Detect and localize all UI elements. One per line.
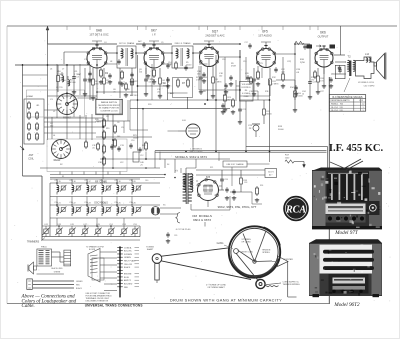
left mesh verticals (51, 117, 53, 139)
coil L24 (102, 207, 104, 213)
svg-text:C30: C30 (129, 180, 132, 182)
top small parts left of V5 (303, 45, 306, 47)
RCA logo inner ring (285, 198, 306, 219)
coil L22 (72, 207, 74, 213)
wire x155 bus down (154, 151, 156, 168)
tube V3 6Q7 grid cap lead (208, 45, 210, 48)
cabinet 97T right dial (367, 201, 380, 215)
junction dots mid (102, 126, 104, 128)
resistor column A2 (103, 132, 106, 138)
wire RF row bottom rail (50, 196, 160, 198)
svg-text:470M: 470M (231, 65, 236, 67)
table column divider 1 (353, 99, 355, 112)
coil block left edge (41, 176, 43, 240)
drum outer circle (229, 226, 280, 277)
power wires (159, 152, 161, 161)
tube V3 6Q7 envelope (200, 48, 219, 67)
svg-text:C30 8 MFD: C30 8 MFD (364, 86, 375, 88)
svg-text:1: 1 (362, 107, 363, 109)
svg-text:R24: R24 (260, 185, 263, 187)
tube V4 6F5 grid cap lead (265, 46, 267, 49)
svg-text:OHM: OHM (244, 96, 249, 98)
gnd cluster V5 (317, 90, 319, 92)
small box in rear box (133, 152, 139, 162)
svg-text:C17: C17 (244, 42, 247, 44)
coil L20 (132, 185, 134, 191)
ground under R13a (232, 110, 234, 112)
svg-text:UNIVERSAL TRANS CONNECTIONS: UNIVERSAL TRANS CONNECTIONS (85, 304, 143, 308)
svg-text:GREEN: GREEN (124, 257, 131, 259)
svg-text:BLK-RED: BLK-RED (124, 283, 133, 285)
speaker frame (356, 57, 375, 79)
wire power section rails (196, 169, 265, 171)
wire IF2 to V3 grid (193, 52, 200, 54)
wire coils right drop x140 (139, 226, 141, 237)
wire coil row verticals (56, 197, 58, 206)
wire osc vertical x97 (96, 68, 98, 99)
grid cap clamp V4 (261, 42, 271, 45)
universal trans transformer outline (88, 249, 100, 283)
cabinet 96T2 dial panel (329, 274, 369, 294)
svg-text:SCREEN: SCREEN (124, 254, 133, 256)
svg-text:RCA: RCA (285, 205, 306, 216)
coil L21 (57, 207, 59, 213)
capacitor in rear box 1 (110, 145, 113, 147)
svg-text:COIL: COIL (28, 158, 34, 161)
svg-text:TO SPEAKER OUTPUT: TO SPEAKER OUTPUT (86, 245, 104, 248)
arrow R17 down (303, 165, 306, 168)
svg-text:FIELD: FIELD (41, 247, 47, 249)
tube V5 6K6 envelope (315, 49, 333, 67)
wire detector bus lower (130, 108, 230, 110)
svg-text:AMP P2: AMP P2 (124, 279, 131, 282)
resistor R15 cathode (314, 72, 317, 77)
AC plug (151, 207, 159, 215)
capacitor C7 under IF1 (130, 73, 133, 75)
svg-text:96K2 & 96T3: 96K2 & 96T3 (193, 218, 211, 222)
wire B+ feed drop (327, 147, 329, 168)
ground C26 (226, 196, 228, 198)
rotary switch S2 REAR (52, 140, 71, 159)
svg-text:1ST DET & OSC: 1ST DET & OSC (89, 32, 108, 36)
antenna wire above 97T (344, 159, 363, 170)
tube V2 6K7 envelope (144, 48, 164, 68)
speaker cone (377, 54, 385, 79)
svg-text:RED: RED (124, 287, 129, 289)
svg-text:170: 170 (311, 79, 314, 81)
junction dots mesh (137, 85, 139, 87)
gnd cluster V3 (200, 90, 202, 92)
svg-text:.05: .05 (92, 147, 95, 149)
tube V4 6F5 pins (256, 52, 259, 55)
ground under V5 (323, 84, 325, 86)
svg-text:C6: C6 (117, 122, 119, 124)
resistor column A4 (103, 158, 106, 164)
wire bus B+ double line upper (155, 150, 327, 152)
svg-text:R20: R20 (148, 104, 151, 106)
power transformer T3 core (185, 173, 187, 204)
svg-text:RL-70-1 970: RL-70-1 970 (331, 107, 343, 109)
svg-text:C32: C32 (69, 202, 72, 204)
svg-text:2700: 2700 (300, 62, 306, 64)
drum rim arc dark (264, 228, 280, 246)
svg-text:SHOWN FROM FRONT: SHOWN FROM FRONT (98, 105, 120, 107)
svg-text:2 TRAP: 2 TRAP (74, 73, 82, 76)
cabinet 97T right column (369, 171, 382, 226)
padder trimmer C53 (122, 229, 126, 234)
wire bus down to power (215, 109, 217, 151)
padder trimmer C51 (109, 229, 113, 234)
resistor R13a (232, 100, 235, 106)
svg-text:6K6: 6K6 (320, 31, 326, 35)
resistor column A3 (103, 146, 106, 152)
svg-text:.05: .05 (113, 91, 116, 93)
tuning eye leads (192, 138, 194, 147)
wire plate bus segment B (136, 43, 172, 45)
svg-text:TRIMMERS: TRIMMERS (27, 242, 40, 244)
mid band extra wires (96, 120, 130, 122)
svg-text:Cable.: Cable. (22, 304, 35, 309)
wire bus to drum area (269, 152, 271, 162)
resistor column B2 (114, 140, 117, 146)
svg-text:.006: .006 (281, 71, 285, 73)
svg-text:115 V: 115 V (268, 172, 274, 174)
line volt change plate box (223, 161, 247, 167)
trimmer cap L25 (121, 208, 125, 212)
grid cap clamp V2 (149, 41, 159, 44)
svg-text:L5: L5 (36, 137, 38, 139)
svg-text:L14: L14 (365, 53, 370, 56)
rotary switch S1 FRONT (57, 94, 78, 115)
cabinet 97T base (312, 226, 382, 229)
extra grounds band1 (167, 84, 169, 86)
cabinet 97T grille (327, 172, 369, 202)
ground under R4 (153, 80, 155, 82)
arrow B+ feed (316, 45, 321, 47)
cabinet 97T knob row (326, 215, 366, 223)
capacitor C19 left of volume (224, 84, 227, 86)
wire osc row to trimmer rail (56, 218, 58, 226)
capacitor C23 electrolytic (253, 125, 259, 131)
svg-text:C27|: C27| (214, 195, 218, 197)
wire vertical x187 (187, 97, 189, 109)
svg-text:MODELS 96K2 & 96T3: MODELS 96K2 & 96T3 (175, 155, 207, 159)
wires into coil rows (56, 179, 58, 183)
capacitor in rear box 2 (117, 147, 120, 149)
coil L16 (72, 185, 74, 191)
resistor R2 under V1 (100, 70, 103, 76)
ground V2 bias (147, 74, 149, 76)
trimmer cap L17 (91, 186, 95, 190)
svg-text:6Q7: 6Q7 (212, 30, 218, 34)
capacitor C29 across primary (338, 66, 341, 68)
idler pulley (256, 279, 265, 288)
resistor R17 zigzag (285, 160, 294, 163)
tube V2 6K7 pins (144, 52, 147, 55)
loudspeaker transformer secondary hatch (46, 250, 50, 252)
wire vertical x137 (137, 55, 139, 100)
svg-text:50000: 50000 (278, 129, 284, 131)
svg-text:C33: C33 (84, 202, 87, 204)
coil L18 (102, 185, 104, 191)
wire V1 plate to IF1 (107, 52, 117, 54)
volume area extra (236, 85, 240, 87)
ground under C19 (225, 90, 227, 92)
svg-text:IN 3 BAND POSITION: IN 3 BAND POSITION (99, 107, 119, 110)
cabinet 96T2 upper face (320, 245, 373, 274)
tube V5 6K6 grid cap lead (323, 46, 325, 49)
wire vertical x207 (207, 66, 209, 100)
svg-text:C6 720: C6 720 (56, 87, 63, 89)
scan noise speckle (10, 30, 390, 301)
wire front switch to notebox (78, 97, 97, 99)
svg-text:S3: S3 (62, 176, 64, 178)
svg-text:2ND DET & AVC: 2ND DET & AVC (205, 33, 224, 37)
wires rear box to rails (59, 172, 61, 175)
wire OSC row bottom rail (50, 217, 160, 219)
wire V5 plate to T2 (334, 54, 346, 56)
svg-text:250: 250 (197, 73, 200, 75)
coil L17 (87, 185, 89, 191)
ground under IF1 parts (121, 82, 123, 84)
border frame top (7, 25, 397, 27)
mesh verticals set3 (119, 100, 121, 114)
svg-text:C40: C40 (145, 180, 148, 182)
capacitor C26 power (225, 188, 228, 190)
universal trans left wires (100, 251, 117, 253)
svg-text:T2: T2 (347, 55, 351, 59)
cabinet 97T dial strip (326, 204, 366, 215)
capacitor C5 beside V1 (108, 74, 111, 76)
table R-C resistance values frame (329, 95, 365, 112)
capacitor C20 (221, 104, 224, 106)
osc gnd (73, 90, 75, 92)
wire top right drop x340 (340, 26, 342, 29)
extra components band1 (117, 60, 120, 62)
drum area small parts (166, 233, 169, 235)
trimmer cap L24 (106, 208, 110, 212)
border frame left (6, 26, 8, 304)
tube V1 6A8 pins (87, 52, 90, 55)
speaker cable line 3 (33, 287, 74, 289)
wire under V5 (323, 68, 325, 85)
svg-text:C34: C34 (99, 202, 102, 204)
resistor pair row2 (28, 113, 31, 118)
switch box outline rear (47, 139, 127, 172)
pulley spring (266, 286, 279, 287)
tube V3 6Q7 pins (199, 51, 202, 54)
power section boost (183, 173, 186, 175)
resistor R18 power (256, 188, 259, 194)
svg-text:C39: C39 (174, 235, 177, 237)
tuning eye tube V6 (186, 124, 200, 138)
long verticals left band (66, 93, 68, 139)
universal trans winding marks (90, 255, 98, 256)
svg-text:C13: C13 (158, 95, 161, 97)
svg-text:C19: C19 (243, 61, 246, 63)
wire left vertical x47.5 (47, 44, 49, 140)
wire osc vertical x90 (89, 65, 91, 100)
wire mid vertical x113 (112, 114, 114, 160)
svg-text:C31: C31 (54, 202, 57, 204)
svg-text:L MODELS: L MODELS (190, 149, 202, 151)
cabinet 97T speckle (334, 178, 337, 179)
capacitor C1 under V1 (88, 72, 91, 74)
mid mesh extra horizontals (199, 89, 240, 91)
drum hub (253, 260, 256, 263)
loudspeaker output transformer core box (37, 249, 52, 266)
svg-text:R21: R21 (210, 167, 213, 169)
wire from trimmers down (96, 218, 98, 226)
wire vertical x167 (167, 77, 169, 100)
svg-text:110: 110 (168, 64, 171, 66)
wire coils left drop (49, 183, 51, 236)
capacitor C21 under V4 (246, 76, 249, 78)
svg-text:1ST I.F. TRANS: 1ST I.F. TRANS (119, 42, 135, 45)
tube V5 6K6 pins (315, 52, 318, 55)
mesh horizontals set3 (97, 91, 138, 93)
padder trimmer C47 (83, 229, 87, 234)
drum spokes (238, 250, 255, 261)
svg-text:TENSION SPRING: TENSION SPRING (283, 284, 301, 286)
capacitor C15 (184, 66, 187, 68)
svg-text:POINTER: POINTER (284, 259, 294, 261)
svg-text:DRUM SHOWN WITH GANG AT MINIMU: DRUM SHOWN WITH GANG AT MINIMUM CAPACITY (170, 297, 282, 302)
loudspeaker transformer winding hatch (39, 250, 44, 252)
mid mesh extra verticals (239, 50, 241, 100)
coil L25 (117, 207, 119, 213)
svg-text:C4: C4 (104, 42, 106, 44)
svg-text:C35: C35 (114, 202, 117, 204)
junction dot detector bus (204, 103, 206, 105)
top small parts left of V4 (248, 44, 251, 46)
trimmer row connecting rail (42, 225, 140, 227)
border frame bottom (7, 303, 330, 305)
wire volume to bus (245, 101, 247, 151)
output transformer T2 core (349, 61, 351, 77)
wire detector bus (130, 99, 230, 101)
IF transformer T-2nd windings (176, 49, 178, 58)
svg-text:96K2, 96T3, 97E, 97KG, 97T: 96K2, 96T3, 97E, 97KG, 97T (218, 205, 257, 209)
svg-text:6 CYCLE 25-60: 6 CYCLE 25-60 (176, 229, 191, 231)
svg-text:L3: L3 (36, 116, 38, 118)
svg-text:100: 100 (219, 75, 222, 77)
IF transformer T-2nd box (172, 46, 193, 68)
coil L23 (87, 207, 89, 213)
table column divider 2 (359, 99, 361, 112)
wire power to plug (160, 207, 181, 209)
ground under C18 (203, 79, 205, 81)
speaker cone vertical (385, 53, 387, 80)
under-V1 strings (84, 68, 86, 77)
cabinet Model 96T2 body (309, 243, 382, 296)
avc drop wires (137, 100, 139, 151)
capacitor mid C11 (138, 148, 141, 150)
svg-text:DISCONNECT RESISTOR: DISCONNECT RESISTOR (86, 301, 109, 303)
ground under C5 (109, 80, 111, 82)
svg-text:710: 710 (88, 80, 91, 82)
trimmer cap L20 (136, 186, 140, 190)
trimmer cap L21 (61, 208, 65, 212)
wire IF1 to V2 grid (136, 52, 144, 54)
svg-text:10000: 10000 (297, 95, 303, 97)
wire grid line V1 (64, 51, 87, 53)
svg-text:2ND I.F. TRANS: 2ND I.F. TRANS (175, 42, 191, 45)
wire T2 to V5 bottom (335, 73, 346, 75)
svg-text:L-REAR: L-REAR (26, 95, 34, 98)
coil L15 (57, 185, 59, 191)
svg-text:LINE VOLT CHANGE: LINE VOLT CHANGE (226, 163, 244, 166)
svg-text:BROWN: BROWN (124, 274, 132, 276)
svg-text:REAR: REAR (54, 159, 61, 162)
extra top stubs (66, 26, 68, 30)
svg-text:COND A: COND A (124, 246, 132, 249)
cabinet 96T2 speckle (353, 269, 356, 271)
top small parts left of V2 (142, 43, 145, 45)
svg-text:15000: 15000 (133, 137, 138, 139)
ground C27 (233, 196, 235, 198)
wire mid vertical x103 (102, 114, 104, 172)
resistor in rear box 1 (85, 142, 88, 147)
svg-text:1: 1 (362, 110, 363, 112)
power extra parts (221, 170, 223, 177)
resistor R5 between V2 V3 (175, 63, 178, 68)
tuning shaft circle (152, 254, 162, 264)
trimmer cap L23 (91, 208, 95, 212)
IF transformer T-1st windings (121, 49, 123, 58)
ground under R12 (282, 84, 284, 86)
svg-text:C36: C36 (129, 202, 132, 204)
wire plate bus segment C (193, 43, 240, 45)
svg-text:C10: C10 (131, 140, 134, 142)
trimmer cap L15 (61, 186, 65, 190)
wire V2 plate to IF2 (164, 52, 172, 54)
cabinet 96T2 left column (310, 244, 320, 295)
svg-text:ON TUNING SHAFT: ON TUNING SHAFT (207, 286, 225, 289)
wire T2 to V5 top (335, 61, 346, 63)
terminal strip speaker plug (64, 250, 71, 266)
dial cord to pulley (236, 253, 259, 281)
wire speaker leads (37, 273, 64, 275)
grid cap clamp V3 (204, 41, 214, 44)
svg-text:BLOWN: BLOWN (89, 249, 96, 251)
svg-text:.05: .05 (157, 91, 160, 93)
IF transformer T-1st box (117, 46, 136, 68)
wire bracket to drum (204, 222, 206, 227)
svg-text:S4: S4 (167, 164, 169, 166)
avc line (129, 109, 131, 130)
upper right verticals (323, 68, 325, 75)
svg-text:RL-70-1 970: RL-70-1 970 (331, 110, 343, 112)
wire left edge to coils (22, 146, 24, 176)
left component box (24, 99, 44, 144)
svg-text:110: 110 (139, 71, 142, 73)
svg-text:250M: 250M (227, 99, 232, 101)
svg-text:OUTPUT: OUTPUT (318, 34, 329, 38)
svg-text:300: 300 (163, 85, 166, 87)
gnd set3 (239, 120, 241, 122)
note box text bump (96, 99, 123, 115)
resistor L-ANT in box (28, 103, 31, 108)
ground under R2 (100, 80, 102, 82)
resistor R7 inside box (177, 80, 180, 86)
wire mid horizontal y168 (40, 167, 160, 169)
trimmer cap L18 (106, 186, 110, 190)
wire V4 plate to V5 grid (276, 53, 296, 55)
svg-text:SPRING: SPRING (262, 252, 270, 254)
svg-text:6F5: 6F5 (262, 30, 268, 34)
svg-text:I. F.: I. F. (152, 32, 156, 36)
